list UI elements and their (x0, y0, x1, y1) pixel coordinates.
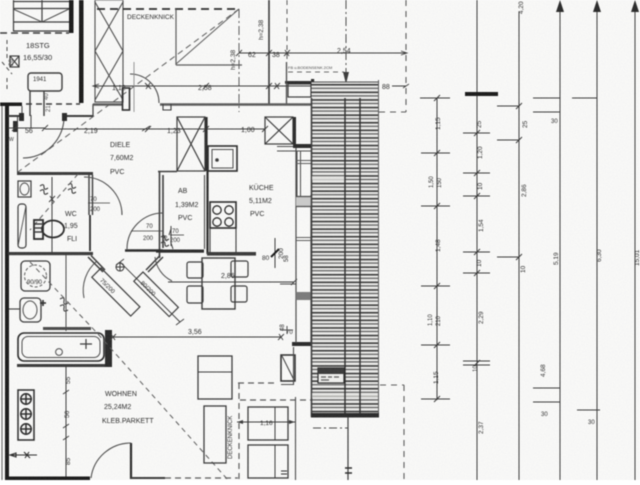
diagonal dim line (116, 259, 184, 325)
wall kitchen-top vertical x269 (268, 0, 270, 104)
entry door arc (23, 117, 64, 158)
chair top-left (187, 262, 203, 278)
vent squiggle door2 (161, 236, 169, 247)
dashed diagonal WOHNEN (98, 334, 228, 480)
wall corner right of WOHNEN (292, 342, 311, 346)
posts below 1941 box (30, 91, 44, 116)
chain x597 (572, 2, 600, 480)
line below deck (347, 417, 349, 480)
deck light break lower (312, 393, 378, 398)
wall below tub (17, 364, 112, 367)
deck light break upper (312, 176, 345, 180)
wardrobe flue box (281, 355, 295, 381)
overhang squares (248, 407, 288, 440)
outlet circles (20, 393, 32, 435)
couch upper (198, 356, 232, 399)
dash-dot below deck (313, 427, 348, 429)
chain x477 (463, 0, 490, 480)
column X kitchen top (265, 117, 293, 144)
window sill band bottom (296, 292, 311, 300)
deck top edge (311, 81, 379, 83)
deck inner vertical 2 (359, 98, 361, 417)
wall stair left thick (69, 0, 74, 33)
outlets column (18, 390, 34, 440)
dimension chain y86 (93, 83, 340, 89)
dashed line y68 (288, 71, 344, 73)
basin tap marks (40, 300, 46, 306)
chain x519 (497, 12, 522, 480)
deck right edge (378, 80, 380, 417)
dashed diagonal through DIELE (18, 9, 239, 172)
WC partition dim line (49, 177, 55, 253)
kitchen unit sides to wall (210, 228, 236, 252)
toilet bowl (42, 221, 64, 238)
bottom dashed wall (165, 477, 238, 479)
washer box on deck (318, 368, 344, 383)
WC door leaf (89, 215, 91, 251)
dim 1,00 (206, 126, 268, 132)
window sill tick pair mid (296, 161, 311, 164)
connector y98 (420, 97, 445, 99)
deck inner vertical 1 (344, 98, 346, 417)
dashed vertical x239 (238, 383, 240, 480)
dim 1,23 (145, 126, 209, 132)
deck hatch area (312, 82, 380, 417)
wall above diele horizontal (176, 64, 242, 66)
chamfer left (88, 256, 105, 273)
bottom door arc (91, 443, 131, 478)
AB door dim 15 (169, 226, 173, 249)
sink inner (212, 150, 233, 169)
dimension chain y53 (236, 50, 407, 56)
kitchen passage dim 80/200 (274, 238, 276, 268)
main wall y104 left part (93, 103, 122, 105)
toilet tank (34, 220, 43, 239)
door leaf diagonal right (134, 272, 179, 317)
dim 88 (392, 84, 409, 88)
wall main vertical thick (stair/diele) (79, 0, 84, 103)
dim 3,56 (110, 334, 284, 340)
dashed x406 upper (405, 0, 407, 112)
bottom wall right of door (131, 477, 165, 479)
left outer wall thin face (1, 104, 3, 480)
corridor right wall above door2 (159, 252, 161, 258)
dashed y112 (379, 111, 406, 113)
diele door jamb (123, 88, 130, 110)
right wall dark upper (311, 79, 314, 195)
WC top wall (17, 172, 93, 175)
dash-dot axis vertical x239 (238, 9, 240, 112)
door jamb mark B (13, 121, 18, 132)
WC basin (18, 181, 31, 197)
entry door jambs (19, 113, 24, 121)
BAD partition line (65, 255, 67, 331)
window sill line pair upper (296, 196, 311, 207)
dim 2,19 (45, 126, 150, 131)
kitchen window glazing vertical (297, 151, 301, 200)
kitchen window sill lines (277, 147, 311, 152)
left outer wall thick (5, 103, 9, 480)
couch lower (204, 406, 226, 463)
wall jog at x93 (92, 104, 94, 116)
column C right edge (293, 117, 296, 144)
arc chamfer left door (83, 261, 97, 298)
dashed floor edge under stair (0, 32, 69, 34)
dashed y400 (240, 399, 311, 401)
wall top-left horizontal (0, 103, 22, 107)
BAD basin (20, 298, 41, 322)
dash-dot axis x346 with arrow (345, 0, 347, 78)
vertical x286 (286, 62, 288, 104)
window sill tick pair lower (296, 238, 311, 241)
diele door arc (130, 74, 159, 103)
AB bottom wall (156, 250, 204, 253)
vent squiggle 2 (68, 184, 76, 194)
wall notch step (163, 104, 171, 110)
column B right double edge (205, 117, 207, 171)
lamp symbol (116, 263, 124, 271)
dim 56 entry (8, 125, 48, 131)
bottom wall left (8, 477, 90, 481)
right wall band verticals (295, 146, 297, 343)
chair top-right (231, 261, 248, 277)
wall above diele vertical (175, 9, 177, 65)
stair landing diagonals (13, 9, 69, 22)
chain x437 (421, 95, 450, 402)
stove burners (213, 206, 233, 226)
chair bottom-right (231, 286, 247, 302)
vent squiggle 1 (40, 185, 48, 195)
sink dot (215, 158, 219, 162)
dashed ceiling line top (97, 8, 238, 10)
WC right wall / corridor (89, 175, 93, 215)
AB left wall (160, 171, 164, 252)
dashed rect top y383 (238, 382, 276, 384)
door2 arc (127, 213, 163, 249)
left margin marks (2, 40, 12, 92)
wall kitchen bottom (207, 252, 256, 256)
entry top wall (8, 115, 93, 117)
dim 2,86 table (168, 279, 297, 285)
wall face line lower right (295, 397, 297, 480)
door leaf diagonal left (92, 268, 140, 316)
chain x635 (634, 3, 636, 480)
main wall y104 with notch (160, 103, 311, 105)
WC bottom wall (8, 252, 93, 255)
ceiling knick diagonal solid (176, 9, 239, 64)
dining table (202, 258, 235, 309)
wall jog dark at window top (293, 144, 311, 148)
dashed wall axis x287 (286, 0, 288, 62)
dashed x404 lower (403, 385, 405, 480)
tub drain (56, 349, 63, 356)
kitchen top wall piece (285, 81, 311, 84)
dim 1,16 (237, 421, 295, 423)
deck left edge (311, 98, 313, 417)
basin feed line (9, 308, 20, 310)
vent squiggle BAD (60, 298, 68, 311)
chair bottom-left (187, 286, 203, 303)
BAD lower wall (43, 327, 91, 330)
tick into wall (280, 283, 296, 285)
small dim bottom left (10, 452, 37, 458)
kitchen sink unit (208, 146, 237, 171)
dim chain x66 wohnen (63, 366, 69, 477)
door2 wall segment (125, 249, 163, 251)
stove (210, 202, 236, 228)
dim text 1,54 backing (311, 79, 337, 92)
sill lines left of flue (280, 326, 293, 334)
small marks in square (281, 471, 287, 474)
deck bottom thick (311, 413, 379, 418)
entry nook verticals (22, 106, 31, 128)
WC radiator (18, 204, 26, 248)
kitchen left wall (206, 171, 208, 254)
chamfer right (146, 256, 163, 273)
1941 box (28, 73, 62, 91)
small x-box symbol left (10, 56, 19, 67)
dashed diagonal WC (30, 174, 78, 230)
shower (21, 261, 50, 291)
chain x560 (533, 2, 560, 480)
arc chamfer right door (155, 257, 172, 281)
hidden wall dashed under stair (26, 103, 80, 105)
thick top bar x477 (465, 92, 498, 96)
dashed y385 right (380, 384, 404, 386)
stair landing outline (13, 0, 69, 31)
shaft column with X braces (95, 0, 123, 102)
AB top wall (158, 171, 177, 173)
tub faucet (80, 339, 92, 349)
wall right of tub (105, 330, 112, 367)
WC door arc (84, 177, 122, 215)
balcony threshold white block (288, 84, 311, 97)
bottom door leaf (130, 443, 132, 479)
column X diele/kitchen (177, 117, 205, 171)
dashed diagonal BAD (30, 262, 98, 334)
inner wall line left (17, 116, 19, 173)
bathtub (18, 333, 104, 361)
